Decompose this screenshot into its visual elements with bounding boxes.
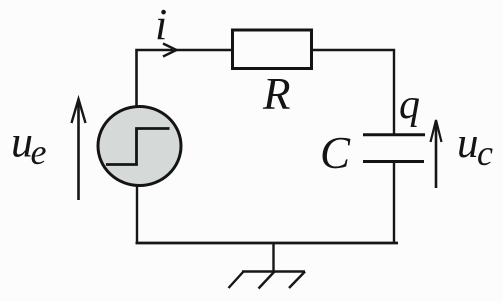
capacitor C bottom plate (363, 160, 424, 163)
svg-text:e: e (31, 132, 47, 172)
wire bottom rail (136, 242, 399, 245)
svg-text:c: c (477, 133, 493, 173)
arrow u_e (left, pointing up) (77, 100, 80, 200)
arrow u_c (right of capacitor, pointing up) (435, 121, 438, 188)
svg-text:i: i (155, 0, 167, 49)
ground hatch 2 (259, 272, 275, 289)
svg-text:q: q (399, 82, 420, 128)
svg-text:R: R (262, 69, 291, 119)
wire right-bottom: capacitor bottom to bottom rail (393, 161, 395, 243)
source step waveform symbol (106, 129, 170, 165)
wire left-bottom: source bottom to bottom rail (136, 184, 138, 243)
svg-text:C: C (320, 128, 351, 178)
resistor R (233, 30, 312, 69)
capacitor C top plate (363, 133, 425, 136)
ground stub (272, 243, 274, 272)
ground bar (242, 270, 305, 272)
ground hatch 1 (229, 272, 244, 289)
current arrow i on top wire (163, 44, 177, 57)
svg-text:u: u (457, 120, 479, 167)
wire top-right: resistor right to capacitor top (312, 50, 395, 135)
voltage source U1 (step source) (98, 107, 181, 186)
ground hatch 3 (289, 272, 305, 289)
wire top-left: source top to resistor left (137, 50, 233, 108)
